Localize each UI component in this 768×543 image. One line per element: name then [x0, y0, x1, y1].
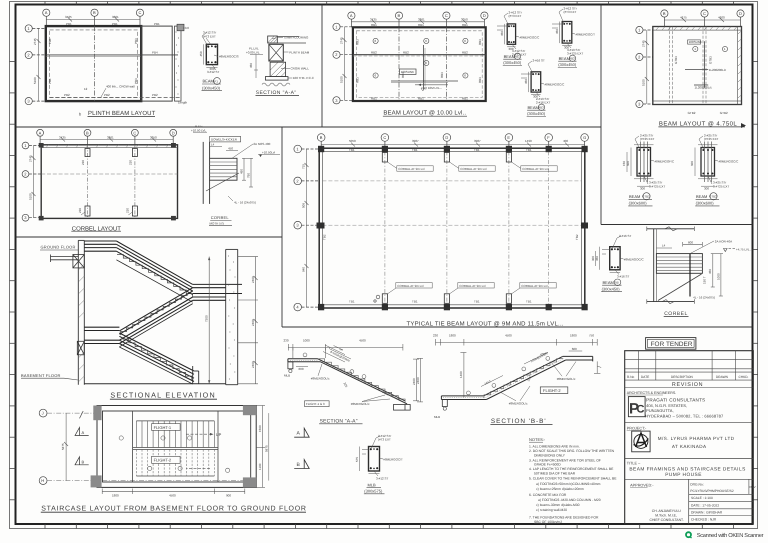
- svg-text:FLIGHT-2: FLIGHT-2: [543, 388, 561, 393]
- beam RB1 cross-section: [507, 24, 515, 44]
- grid circle B: [661, 10, 668, 27]
- tie beam double rect: [319, 148, 585, 308]
- svg-text:PB2: PB2: [104, 93, 110, 97]
- region divider h y327: [282, 326, 753, 328]
- grid circle C: [443, 12, 450, 27]
- svg-text:PLINTH BEAM LAYOUT: PLINTH BEAM LAYOUT: [88, 110, 156, 117]
- region divider h y127: [16, 126, 602, 128]
- svg-text:7. THE FOUNDATIONS ARE DESIGN: 7. THE FOUNDATIONS ARE DESIGNED FOR: [529, 515, 599, 519]
- svg-text:B: B: [93, 10, 96, 15]
- svg-text:940: 940: [301, 267, 305, 272]
- beam GTB2 cross-section: [690, 134, 739, 206]
- svg-text:TB1: TB1: [412, 148, 418, 152]
- down arrow flight2: [186, 467, 210, 469]
- svg-text:RB1: RB1: [514, 55, 520, 59]
- diagonal bar: [206, 173, 239, 191]
- region divider h y224: [601, 224, 753, 226]
- left stair wall: [78, 240, 84, 384]
- region divider v x601: [600, 5, 602, 225]
- svg-text:BEAM LAYOUT @ 4.750L: BEAM LAYOUT @ 4.750L: [659, 120, 738, 127]
- svg-text:CRGW WALL: CRGW WALL: [291, 67, 310, 71]
- svg-text:450: 450: [199, 51, 203, 56]
- grid circle C: [701, 10, 708, 27]
- hanger vertical: [689, 254, 691, 297]
- svg-text:TYPICAL TIE BEAM LAYOUT @: TYPICAL TIE BEAM LAYOUT @ 9M AND 11.5m L…: [407, 320, 564, 327]
- flight-2 treads dashed: [136, 449, 214, 476]
- svg-text:RB1: RB1: [462, 23, 468, 27]
- project logo: [632, 431, 650, 452]
- revision table columns: [638, 351, 735, 380]
- svg-text:TB1: TB1: [412, 300, 418, 304]
- svg-text:2745: 2745: [642, 40, 646, 47]
- svg-text:2400: 2400: [251, 361, 255, 368]
- svg-text:DATE: DATE: [641, 375, 649, 379]
- svg-text:4L - 16 (24x075): 4L - 16 (24x075): [693, 295, 715, 299]
- svg-text:PRAGATI CONSULTANTS: PRAGATI CONSULTANTS: [646, 397, 705, 402]
- svg-text:SBC OF 100kn/m2: SBC OF 100kn/m2: [534, 520, 562, 524]
- svg-text:CORBAL AT 9m Lvl: CORBAL AT 9m Lvl: [522, 167, 548, 171]
- svg-text:#8MERGOC/T: #8MERGOC/T: [576, 33, 596, 37]
- left grid circles 1 2 3 4: [294, 145, 319, 311]
- svg-text:B: B: [320, 135, 323, 140]
- svg-text:1800: 1800: [112, 494, 119, 498]
- svg-text:G: G: [583, 135, 586, 140]
- svg-text:300: 300: [509, 47, 514, 51]
- svg-text:SECTION 'B-B': SECTION 'B-B': [491, 418, 547, 425]
- svg-text:RB1: RB1: [371, 23, 377, 27]
- right mid landing band: [193, 284, 242, 300]
- FOR TENDER box: [646, 338, 696, 350]
- circled numbers: [693, 46, 728, 51]
- svg-text:400: 400: [563, 139, 568, 143]
- left landing band: [84, 327, 119, 343]
- grid circle J: [39, 409, 47, 417]
- svg-text:A: A: [82, 430, 85, 435]
- svg-text:2745: 2745: [28, 155, 32, 162]
- basement floor line: [84, 383, 225, 385]
- svg-text:a) FOOTINGS -M20 AND COLU: a) FOOTINGS -M20 AND COLUMN - M20: [538, 498, 601, 502]
- svg-text:DRAWN : GIRIDHAR: DRAWN : GIRIDHAR: [691, 510, 723, 514]
- svg-text:600: 600: [299, 367, 304, 371]
- svg-text:+10.50 LVL: +10.50 LVL: [191, 128, 207, 132]
- corner column blocks: [91, 405, 257, 487]
- flight 1 steps: [117, 255, 193, 298]
- svg-text:150 T: 150 T: [702, 276, 706, 284]
- dims above corbel: [210, 147, 238, 151]
- svg-text:600: 600: [690, 161, 694, 166]
- svg-text:RB2: RB2: [403, 50, 409, 54]
- top dim line: [436, 339, 598, 346]
- svg-text:DOWELS+KICKER: DOWELS+KICKER: [211, 138, 238, 142]
- flight3 end block: [193, 366, 199, 384]
- top dim line: [351, 20, 484, 24]
- svg-text:C: C: [703, 11, 706, 16]
- incline band: [318, 359, 408, 404]
- svg-text:RB3: RB3: [538, 106, 544, 110]
- svg-text:(#T3 EXT: (#T3 EXT: [378, 438, 391, 442]
- svg-text:3861: 3861: [107, 135, 114, 139]
- leader notes top: [202, 33, 212, 46]
- svg-text:PB1: PB1: [154, 22, 160, 26]
- svg-text:GTB2: GTB2: [720, 111, 728, 115]
- svg-text:5100: 5100: [28, 193, 32, 200]
- svg-text:(#T25 EXT: (#T25 EXT: [704, 137, 719, 141]
- bottom slab band: [441, 396, 486, 400]
- svg-text:CORBAL AT 9m Lvl: CORBAL AT 9m Lvl: [459, 284, 485, 288]
- svg-text:150: 150: [622, 161, 626, 166]
- bottom leader: [212, 65, 216, 70]
- svg-text:3-#16 ST: 3-#16 ST: [617, 275, 630, 279]
- svg-text:D: D: [739, 11, 742, 16]
- svg-text:Scanned with OKEN Scanner: Scanned with OKEN Scanner: [697, 532, 764, 539]
- mid dim 1400: [460, 353, 466, 398]
- left dim 2400: [417, 358, 423, 402]
- svg-text:900: 900: [226, 494, 231, 498]
- svg-text:TB1: TB1: [526, 148, 532, 152]
- svg-text:715: 715: [301, 164, 305, 169]
- grid circles A B C D top: [37, 129, 177, 144]
- svg-text:P1: P1: [214, 79, 218, 83]
- svg-text:RB3: RB3: [356, 39, 360, 45]
- svg-text:230: 230: [125, 208, 129, 213]
- svg-text:4500: 4500: [359, 339, 366, 343]
- circled marks: [467, 357, 550, 395]
- pcc base: [265, 77, 288, 81]
- svg-text:D: D: [172, 130, 175, 135]
- internal beam lines: [685, 69, 708, 71]
- svg-text:3050: 3050: [461, 18, 468, 22]
- columns bottom edge: [318, 304, 588, 310]
- svg-text:5100: 5100: [33, 77, 37, 84]
- tread zone borders: [136, 420, 214, 422]
- title block outer: [625, 351, 754, 524]
- svg-text:12: 12: [84, 87, 88, 91]
- svg-text:AT KAKINADA: AT KAKINADA: [672, 444, 707, 449]
- svg-text:BEAM: BEAM: [603, 280, 614, 285]
- svg-text:1800: 1800: [449, 334, 456, 338]
- svg-text:H: H: [41, 478, 44, 483]
- section marker B right: [294, 460, 309, 469]
- svg-text:PB1: PB1: [66, 22, 72, 26]
- label 75mm FLOORING: [272, 37, 283, 38]
- svg-text:100 THK. P.C.C: 100 THK. P.C.C: [293, 76, 315, 80]
- flight 3 steps: [123, 339, 192, 380]
- top grid circles B C D E F G: [317, 134, 588, 152]
- svg-text:PB1: PB1: [48, 38, 52, 44]
- svg-text:TB2: TB2: [323, 234, 327, 240]
- columns top edge: [318, 146, 588, 152]
- svg-text:3861: 3861: [418, 18, 425, 22]
- right stair wall with stipple: [226, 249, 238, 384]
- svg-text:5875: 5875: [264, 445, 268, 452]
- svg-text:1000: 1000: [716, 273, 720, 280]
- floor slab hatched: [268, 36, 278, 43]
- svg-text:75mm FLOORING: 75mm FLOORING: [284, 36, 310, 40]
- right dims: [711, 254, 723, 296]
- grid circles 1 2 3 left: [333, 23, 353, 104]
- sunk box label: [688, 40, 701, 44]
- svg-text:5050: 5050: [349, 139, 356, 143]
- svg-text:3435: 3435: [59, 135, 66, 139]
- svg-text:PB2: PB2: [152, 93, 158, 97]
- svg-text:CORBAL AT 9m Lvl: CORBAL AT 9m Lvl: [398, 167, 424, 171]
- svg-text:REVISION: REVISION: [672, 382, 703, 388]
- plan inner wall: [103, 411, 251, 482]
- grid circle A: [348, 12, 355, 27]
- svg-text:D: D: [483, 13, 486, 18]
- circled refs: [119, 436, 230, 473]
- svg-text:#8MERGOF/C: #8MERGOF/C: [655, 160, 675, 164]
- svg-text:PB3: PB3: [134, 38, 138, 44]
- svg-text:APPROVED:-: APPROVED:-: [630, 483, 654, 487]
- svg-text:CH. ANJANEYULU: CH. ANJANEYULU: [652, 509, 682, 513]
- svg-text:450: 450: [249, 63, 253, 68]
- MLB hanger at left: [288, 362, 293, 369]
- svg-text:5. CLEAR COVER TO THE REINFOR: 5. CLEAR COVER TO THE REINFORCEMENT SHAL…: [529, 476, 617, 480]
- svg-text:DRG.No:: DRG.No:: [690, 482, 703, 486]
- svg-text:TB2: TB2: [575, 234, 579, 240]
- svg-text:RB2: RB2: [569, 57, 575, 61]
- svg-text:PLINTH BEAM: PLINTH BEAM: [289, 50, 310, 54]
- svg-text:4500: 4500: [169, 494, 176, 498]
- svg-text:575: 575: [355, 457, 359, 462]
- svg-text:RB1: RB1: [418, 23, 424, 27]
- svg-text:BEAM: BEAM: [203, 79, 214, 84]
- svg-text:4675: 4675: [680, 16, 687, 20]
- circled panel numbers: [373, 38, 468, 78]
- svg-text:(300x575): (300x575): [364, 489, 383, 494]
- flight 2 steps: [121, 296, 188, 336]
- svg-text:@ 10M LVL...: @ 10M LVL...: [424, 86, 442, 90]
- steps zigzag: [484, 359, 563, 398]
- svg-text:E: E: [507, 135, 510, 140]
- svg-text:1490: 1490: [525, 139, 532, 143]
- svg-text:MLB: MLB: [284, 374, 290, 378]
- left dim 5875: [64, 413, 68, 481]
- svg-text:(#T3 EXT: (#T3 EXT: [203, 35, 216, 39]
- svg-text:(300x450): (300x450): [527, 111, 546, 116]
- svg-text:300: 300: [640, 187, 645, 191]
- svg-text:3050: 3050: [150, 135, 157, 139]
- flight 3 band: [119, 333, 194, 384]
- section marker B left: [75, 457, 89, 465]
- svg-text:B: B: [82, 459, 85, 464]
- top edge band: [41, 147, 177, 149]
- svg-text:3987: 3987: [474, 139, 481, 143]
- svg-text:L4: L4: [211, 143, 215, 147]
- floor lines extending right: [277, 36, 299, 38]
- svg-text:4500: 4500: [505, 334, 512, 338]
- svg-text:(300x450): (300x450): [202, 85, 221, 90]
- svg-text:1500: 1500: [258, 425, 262, 432]
- main beam rect: [353, 27, 486, 101]
- svg-text:BASEMENT FLOOR: BASEMENT FLOOR: [21, 373, 61, 378]
- right dim 2400: [413, 359, 419, 401]
- grid circle H: [39, 477, 47, 485]
- svg-text:2745: 2745: [339, 37, 343, 44]
- right dim column: [238, 257, 258, 384]
- svg-text:RB2: RB2: [462, 50, 468, 54]
- svg-text:BEAM FRAMINGS AND STAIRCASE: BEAM FRAMINGS AND STAIRCASE DETAILS: [629, 467, 745, 473]
- grid circle C: [136, 9, 143, 26]
- level mark: [724, 249, 728, 252]
- slab top landing band: [288, 359, 321, 362]
- svg-text:DATE : 17-05-2022: DATE : 17-05-2022: [691, 503, 719, 507]
- svg-text:C: C: [637, 404, 645, 416]
- svg-text:RB3: RB3: [478, 77, 482, 83]
- dashed verticals: [669, 27, 671, 105]
- svg-text:3435: 3435: [370, 18, 377, 22]
- svg-text:C: C: [383, 135, 386, 140]
- svg-text:(300x450): (300x450): [602, 286, 621, 291]
- svg-text:A: A: [350, 13, 353, 18]
- svg-text:TB1: TB1: [349, 300, 355, 304]
- svg-text:300: 300: [704, 187, 709, 191]
- ground squiggle: [262, 83, 290, 86]
- svg-text:PB3: PB3: [134, 78, 138, 84]
- grid line B vertical: [94, 26, 96, 101]
- svg-text:230: 230: [128, 160, 132, 165]
- rotated note lower: [481, 376, 503, 387]
- svg-text:GTB3: GTB3: [709, 56, 713, 64]
- svg-text:230: 230: [81, 160, 85, 165]
- svg-text:MLB: MLB: [434, 415, 440, 419]
- flight 2 band: [119, 288, 192, 347]
- svg-text:2400: 2400: [251, 276, 255, 283]
- beam row 2 line: [46, 54, 178, 56]
- svg-text:DESCRIPTION: DESCRIPTION: [671, 375, 693, 379]
- svg-text:L4: L4: [662, 243, 666, 247]
- svg-text:BEAM: BEAM: [629, 194, 640, 199]
- beam GTB1 cross-section: [622, 134, 675, 206]
- svg-text:GRADE Fe=500D: GRADE Fe=500D: [534, 463, 561, 467]
- svg-text:450: 450: [524, 79, 528, 84]
- leader 2A HOR-400: [232, 144, 253, 158]
- svg-text:1800: 1800: [570, 334, 577, 338]
- svg-text:#8MERGOC/S: #8MERGOC/S: [219, 55, 239, 59]
- left dim: [645, 30, 649, 104]
- svg-text:M.Tech. M.I.E,: M.Tech. M.I.E,: [655, 513, 677, 517]
- svg-text:C: C: [445, 13, 448, 18]
- right info column: [688, 479, 690, 524]
- beam P1 cross-section: [206, 44, 217, 64]
- svg-text:3987: 3987: [412, 139, 419, 143]
- beam RB2 cross-section: [562, 22, 572, 44]
- svg-text:1100: 1100: [258, 463, 262, 470]
- svg-text:450: 450: [500, 31, 504, 36]
- wall X box lower: [77, 341, 84, 355]
- diagonal bar: [658, 274, 702, 301]
- flight-1 treads: [136, 421, 214, 448]
- crgw wall hatched: [270, 62, 286, 76]
- svg-text:c) beams=25mm d)slabs=: c) beams=25mm d)slabs=20mm: [536, 487, 584, 491]
- svg-text:#8MERGOL/c: #8MERGOL/c: [351, 402, 370, 406]
- svg-text:SECTIONAL ELEVATION: SECTIONAL ELEVATION: [110, 391, 215, 400]
- right dims: [242, 158, 253, 187]
- svg-text:2400: 2400: [416, 377, 420, 384]
- plan outer wall: [97, 406, 256, 488]
- column vertical: [203, 142, 209, 204]
- svg-text:4600: 4600: [718, 16, 725, 20]
- svg-text:450: 450: [228, 147, 233, 151]
- svg-text:RB1: RB1: [371, 97, 377, 101]
- svg-text:RB3: RB3: [478, 39, 482, 45]
- svg-text:600: 600: [572, 347, 577, 351]
- left dimension line: [37, 28, 41, 101]
- top tee line: [647, 228, 695, 230]
- svg-text:R.No: R.No: [627, 375, 634, 379]
- region divider v x322: [321, 5, 323, 128]
- circled marks: [303, 353, 366, 378]
- svg-text:2A HOR-40A: 2A HOR-40A: [715, 240, 732, 244]
- FLIGHT-1 & 3 box: [305, 401, 330, 407]
- right extension bay: [141, 26, 172, 101]
- svg-text:3-#T25 EXT: 3-#T25 EXT: [713, 184, 729, 188]
- top corbels at B C: [85, 149, 137, 157]
- rotated note upper: [524, 353, 548, 365]
- svg-text:CORBEL: CORBEL: [211, 215, 230, 220]
- right dims: [256, 406, 265, 488]
- svg-text:B: B: [398, 13, 401, 18]
- svg-text:300: 300: [591, 256, 595, 261]
- rebar dots: [207, 45, 216, 63]
- svg-text:A: A: [45, 10, 48, 15]
- svg-text:2400: 2400: [251, 319, 255, 326]
- steps zigzag: [318, 359, 405, 403]
- corbel block: [210, 158, 237, 180]
- svg-text:230: 230: [433, 334, 438, 338]
- svg-text:GTB2: GTB2: [709, 195, 717, 199]
- FLIGHT-2 label box: [152, 456, 181, 463]
- svg-text:e) retaining wall-M20: e) retaining wall-M20: [536, 508, 567, 512]
- svg-text:B: B: [86, 130, 89, 135]
- svg-text:2745: 2745: [33, 38, 37, 45]
- svg-text:1400: 1400: [459, 371, 463, 378]
- bottom corbels at B C: [85, 206, 137, 216]
- label 100 THK PCC: [288, 77, 292, 79]
- grid dashed verticals B C: [398, 27, 400, 101]
- flight 1 band: [116, 241, 192, 302]
- svg-text:4L - 16 (24x075): 4L - 16 (24x075): [234, 200, 256, 204]
- svg-text:CORBAL AT 9m Lvl: CORBAL AT 9m Lvl: [521, 284, 547, 288]
- grid circle B: [91, 9, 98, 26]
- svg-text:300: 300: [564, 46, 569, 50]
- svg-text:Length: Length: [178, 101, 188, 105]
- svg-text:(#T25 EXT: (#T25 EXT: [640, 137, 655, 141]
- svg-text:(300x450): (300x450): [503, 60, 522, 65]
- svg-text:#8MERGOL/c: #8MERGOL/c: [311, 377, 330, 381]
- svg-text:a) FOOTINGS=50mm b)COLUMNS=: a) FOOTINGS=50mm b)COLUMNS=40mm: [536, 482, 601, 486]
- svg-text:GTB1: GTB1: [642, 195, 650, 199]
- svg-text:230: 230: [284, 339, 289, 343]
- dim marks: [204, 44, 218, 67]
- top dim line: [288, 344, 403, 358]
- svg-text:REV: REV: [750, 485, 756, 489]
- svg-text:PB1: PB1: [112, 22, 118, 26]
- FLIGHT-2 box: [540, 387, 568, 394]
- svg-text:450: 450: [595, 256, 599, 261]
- top dim: [664, 18, 740, 22]
- bottom small marks at flight columns: [374, 295, 380, 302]
- svg-text:(300x600): (300x600): [696, 201, 715, 206]
- svg-text:C: C: [139, 10, 142, 15]
- svg-text:DIMENSIONS ONLY: DIMENSIONS ONLY: [534, 453, 566, 457]
- svg-text:100SUNK: 100SUNK: [689, 40, 702, 44]
- svg-text:BEAM LAYOUT @ 10.00 Lvl..: BEAM LAYOUT @ 10.00 Lvl..: [383, 110, 466, 117]
- svg-text:450: 450: [240, 169, 244, 174]
- incline band: [483, 356, 565, 399]
- svg-text:508: 508: [301, 203, 305, 208]
